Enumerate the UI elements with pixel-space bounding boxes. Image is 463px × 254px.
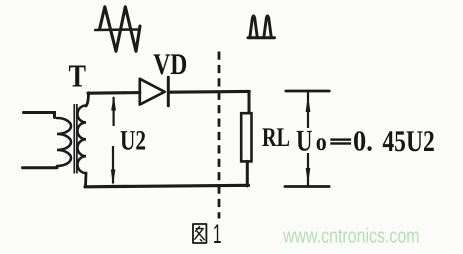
Uo dimension bottom bar <box>285 185 329 188</box>
transformer primary winding <box>57 118 71 166</box>
wire secondary top to rail <box>86 93 89 106</box>
svg-text:o: o <box>316 129 327 156</box>
wire top rail right segment <box>168 90 249 94</box>
Uo dimension top bar <box>286 90 330 93</box>
transformer secondary winding <box>77 106 86 174</box>
transformer primary top lead <box>24 113 55 118</box>
svg-text:RL: RL <box>262 122 290 152</box>
wire right bottom <box>246 161 249 186</box>
svg-text:0.: 0. <box>353 126 373 158</box>
svg-text:T: T <box>69 58 87 94</box>
svg-text:45U2: 45U2 <box>382 125 434 158</box>
output half-wave waveform <box>248 16 275 38</box>
svg-text:U2: U2 <box>120 125 146 156</box>
svg-text:U: U <box>296 125 313 158</box>
equation Uo=0.45U2 <box>296 125 435 158</box>
dashed separation line <box>218 52 221 219</box>
svg-text:VD: VD <box>153 48 187 81</box>
wire right top <box>248 91 251 113</box>
U2 measurement arrow lower <box>112 146 114 184</box>
U2 measurement arrow upper <box>112 97 114 126</box>
svg-text:www.cntronics.com: www.cntronics.com <box>282 225 419 248</box>
Uo dimension bottom arrow <box>307 153 309 186</box>
input sine waveform <box>95 7 140 52</box>
resistor RL <box>241 113 251 161</box>
svg-text:1: 1 <box>213 219 222 249</box>
diode VD <box>140 77 169 106</box>
wire secondary bottom to rail <box>84 173 87 187</box>
Uo dimension top arrow <box>307 92 309 128</box>
wire bottom rail <box>85 185 249 187</box>
caption 图 (drawn) <box>193 224 206 243</box>
transformer primary bottom lead <box>23 166 58 169</box>
transformer core <box>74 104 77 174</box>
wire top rail left segment <box>88 91 140 95</box>
